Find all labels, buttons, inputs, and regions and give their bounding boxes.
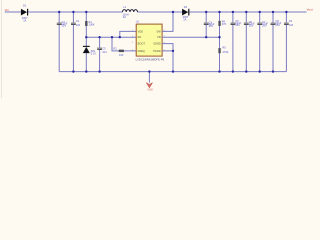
wire top rail: L1 to D2 anode — [138, 11, 183, 13]
capacitor C7 — [257, 12, 268, 72]
node top rail C6 — [245, 11, 247, 13]
node top rail C7 — [259, 11, 261, 13]
svg-text:25V: 25V — [275, 23, 280, 27]
svg-text:R5: R5 — [222, 46, 226, 50]
svg-text:25V: 25V — [262, 24, 267, 28]
svg-text:47K: 47K — [222, 22, 227, 26]
capacitor C3 — [97, 37, 107, 71]
svg-text:103: 103 — [119, 53, 124, 57]
svg-text:104: 104 — [76, 23, 81, 27]
svg-text:D1: D1 — [23, 4, 27, 8]
zener diode ZD1 — [83, 37, 96, 71]
node bottom rail C8 — [272, 70, 274, 72]
svg-text:PGND: PGND — [153, 49, 161, 53]
svg-text:104: 104 — [102, 50, 107, 54]
capacitor C9 — [284, 12, 294, 72]
wire top rail: D2 cathode to Vout — [189, 11, 306, 13]
diode D1 — [21, 4, 28, 23]
wire VDD pin elbow — [120, 31, 136, 37]
node mid wire zener — [85, 36, 87, 38]
background canvas — [0, 0, 320, 98]
node top rail R1 — [85, 11, 87, 13]
svg-text:R2: R2 — [113, 46, 117, 50]
op-amp U1 regulator IC — [132, 19, 165, 61]
node FB C4 — [205, 36, 207, 38]
svg-text:LXDC2WRK3WDFE-P8: LXDC2WRK3WDFE-P8 — [136, 58, 165, 61]
wire mid net: zener node to IC pin EN — [86, 36, 136, 38]
svg-text:SGND: SGND — [153, 42, 161, 46]
node bottom rail IC gnd — [172, 70, 174, 72]
node top rail R4 — [218, 11, 220, 13]
svg-text:5.1V: 5.1V — [91, 51, 97, 55]
resistor R4 upper divider — [219, 12, 227, 37]
svg-text:4: 4 — [132, 49, 133, 51]
svg-text:1A: 1A — [183, 18, 186, 22]
node PGND elbow — [172, 50, 174, 52]
svg-text:VDD: VDD — [138, 29, 144, 33]
capacitor C8 — [271, 12, 282, 72]
ground symbol GND — [146, 72, 153, 92]
node top rail C4 — [205, 11, 207, 13]
node top rail C1 — [58, 11, 60, 13]
resistor R2 on FREQ pin — [113, 46, 123, 57]
capacitor C5 — [231, 12, 242, 72]
svg-text:U1: U1 — [136, 19, 140, 23]
diode D2 — [182, 5, 189, 22]
wire top rail: Vin to D1 anode — [5, 11, 21, 13]
svg-text:25V: 25V — [209, 24, 214, 28]
wire SGND pin elbow — [162, 44, 173, 51]
capacitor C1 — [57, 12, 68, 72]
node bottom rail C6 — [245, 70, 247, 72]
svg-text:D2: D2 — [184, 5, 188, 9]
capacitor C2 — [71, 12, 81, 72]
svg-text:GND: GND — [148, 88, 154, 91]
node mid wire FREQ — [111, 36, 113, 38]
node bottom rail zener — [85, 70, 87, 72]
svg-text:Vin: Vin — [5, 8, 10, 12]
svg-text:Vout: Vout — [307, 8, 313, 12]
wire PGND pin to ground rail — [162, 51, 173, 72]
svg-text:3A: 3A — [123, 15, 126, 19]
pin numbers — [132, 30, 165, 52]
wire FB pin to divider — [162, 36, 219, 38]
node bottom rail GND — [148, 70, 150, 72]
svg-text:EN: EN — [138, 35, 142, 39]
node bottom rail C5 — [232, 70, 234, 72]
node bottom rail C3 — [98, 70, 100, 72]
svg-text:1A: 1A — [23, 19, 26, 23]
svg-text:25V: 25V — [62, 24, 67, 28]
svg-text:C3: C3 — [102, 47, 106, 51]
svg-text:2: 2 — [132, 36, 133, 38]
svg-text:473K: 473K — [222, 50, 228, 54]
svg-text:25V: 25V — [235, 23, 240, 27]
svg-text:104: 104 — [289, 23, 294, 27]
svg-text:SW: SW — [157, 29, 162, 33]
node top rail C9 — [285, 11, 287, 13]
svg-text:C9: C9 — [289, 19, 293, 23]
node bottom rail C7 — [259, 70, 261, 72]
svg-text:100K: 100K — [89, 22, 95, 26]
svg-text:BOOT: BOOT — [138, 42, 146, 46]
wire SW pin to top rail — [162, 12, 173, 31]
svg-text:FREQ: FREQ — [138, 49, 145, 53]
node bottom rail R5 — [218, 70, 220, 72]
node top rail SW — [172, 11, 174, 13]
junction node dots — [58, 11, 288, 73]
node top rail C5 — [232, 11, 234, 13]
svg-text:25V: 25V — [249, 24, 254, 28]
node top rail C8 — [272, 11, 274, 13]
node mid wire VDD — [119, 36, 121, 38]
svg-text:FB: FB — [157, 35, 161, 39]
svg-text:3: 3 — [132, 42, 133, 44]
node mid wire C3 — [98, 36, 100, 38]
inductor L1 — [122, 5, 137, 19]
svg-text:C2: C2 — [76, 19, 80, 23]
node bottom rail C2 — [72, 70, 74, 72]
resistor R1 — [85, 12, 94, 37]
wire bottom ground rail — [59, 71, 286, 73]
resistor R5 lower divider — [219, 37, 229, 71]
svg-text:1: 1 — [132, 30, 133, 32]
node top rail C2 — [72, 11, 74, 13]
node FB R4 — [218, 36, 220, 38]
capacitor C4 — [204, 12, 215, 37]
wire FREQ pin elbow — [112, 37, 136, 51]
capacitor C6 — [244, 12, 255, 72]
wire top rail: D1 cathode to L1 — [28, 11, 122, 13]
